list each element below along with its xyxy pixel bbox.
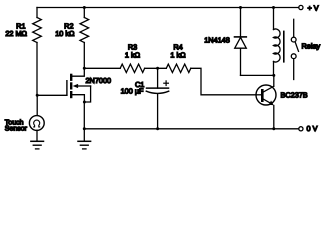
terminal +V: [299, 5, 303, 9]
node emitter bottom rail junction: [272, 127, 275, 130]
label Relay: [302, 42, 321, 51]
resistor R3: [120, 64, 144, 72]
node A junction R2/R3/drain: [83, 67, 86, 70]
relay switch contacts: [291, 19, 298, 79]
wire R4 to transistor base: [191, 68, 262, 95]
node diode top rail junction: [239, 6, 242, 9]
transistor Q2 BC237B: [256, 75, 276, 128]
wire node A to R3: [84, 67, 120, 69]
touch sensor omega symbol: [34, 120, 40, 127]
node coil top rail junction: [272, 6, 275, 9]
label C1 value 100 µF: [121, 80, 145, 96]
relay core bar: [283, 31, 285, 61]
label R2 value 10 kΩ: [55, 22, 75, 38]
wire top rail +V: [37, 7, 299, 9]
label R3 value 1 kΩ: [125, 42, 141, 59]
node collector/coil/diode junction: [272, 74, 275, 77]
node bottom rail left junction: [83, 127, 86, 130]
wire source to ground rail: [83, 102, 85, 141]
wire bottom rail 0V: [84, 128, 298, 130]
svg-text:1 kΩ: 1 kΩ: [170, 51, 186, 60]
svg-text:22 MΩ: 22 MΩ: [5, 29, 27, 38]
svg-text:1 kΩ: 1 kΩ: [125, 51, 141, 60]
touch sensor TS1: [29, 95, 44, 141]
svg-text:Sensor: Sensor: [5, 126, 28, 133]
node gate/R1/sensor junction: [36, 94, 39, 97]
node B junction R3/R4/C1: [156, 67, 159, 70]
svg-text:1N4148: 1N4148: [204, 36, 230, 45]
svg-text:BC237B: BC237B: [281, 90, 308, 99]
label R4 value 1 kΩ: [170, 42, 186, 59]
label Touch Sensor: [5, 118, 28, 132]
label 0V: [307, 124, 318, 133]
svg-text:+ V: + V: [308, 3, 319, 12]
relay coil L1: [274, 8, 281, 76]
wire gate: [37, 94, 67, 96]
node junction R2 top rail: [83, 6, 86, 9]
wire R3 to R4: [145, 67, 167, 69]
resistor R1: [33, 8, 42, 96]
ground G2 under MOSFET: [78, 141, 91, 149]
svg-text:2N7000: 2N7000: [86, 76, 112, 85]
svg-text:100 µF: 100 µF: [121, 87, 144, 96]
label BC237B: [281, 90, 308, 99]
transistor Q1 2N7000 MOSFET: [67, 68, 91, 102]
label 2N7000: [86, 76, 112, 85]
wire diode bottom to collector node: [241, 74, 274, 76]
C1 polarity plus sign: [164, 81, 169, 86]
resistor R2: [80, 8, 89, 69]
diode D1 1N4148: [235, 8, 247, 76]
ground G1 under sensor: [31, 141, 44, 149]
node C1 bottom rail junction: [156, 127, 159, 130]
resistor R4: [166, 64, 191, 72]
svg-text:0 V: 0 V: [307, 124, 318, 133]
label R1 value 22 MΩ: [5, 22, 27, 38]
terminal 0V: [299, 127, 303, 131]
node source/body junction: [83, 101, 86, 104]
label +V: [308, 3, 319, 12]
svg-text:Relay: Relay: [302, 42, 321, 51]
svg-text:10 kΩ: 10 kΩ: [55, 29, 75, 38]
capacitor C1: [146, 68, 168, 129]
label 1N4148: [204, 36, 230, 45]
